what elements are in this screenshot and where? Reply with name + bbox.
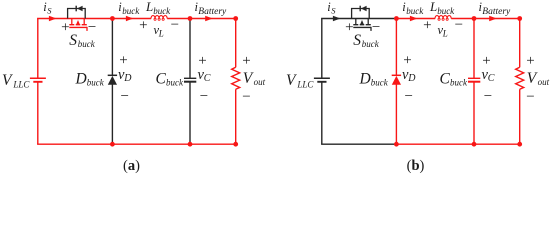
svg-text:D: D [75,70,87,87]
label C_buck (b) [440,70,468,87]
label v_C (a) [198,67,211,84]
label V_out (a) [243,70,266,87]
label i_Battery (b) [479,0,512,17]
svg-text:L: L [429,0,437,14]
label i_S (b) [327,0,336,15]
svg-text:−: − [242,89,250,105]
svg-text:+: + [345,19,353,35]
junction node: C_buck top (b) [472,16,477,21]
label v_L (a) [154,23,164,38]
svg-text:L: L [158,28,164,38]
wire: D_buck branch upper (a) [111,19,113,76]
svg-text:−: − [526,89,534,105]
wire: top rail from D_buck node to L_buck (b) [396,18,435,20]
svg-text:D: D [359,70,371,87]
svg-text:C: C [488,73,495,84]
svg-text:buck: buck [122,6,140,16]
junction node: C_buck top (a) [188,16,193,21]
voltage source V_LLC (a) [30,78,46,82]
wire: V_out branch upper (a) [235,19,237,68]
svg-text:D: D [407,73,416,84]
wire: V_out branch lower (a) [235,89,237,144]
label V_out (b) [527,70,550,87]
svg-text:S: S [353,32,361,49]
wire: top rail from V_LLC to S_buck/D_buck node (b) [321,18,396,20]
svg-text:−: − [404,89,412,105]
wire: top rail from L_buck to C_buck node (b) [451,18,474,20]
label v_L (b) [438,23,448,38]
junction node: D_buck top (b) [394,16,399,21]
svg-text:buck: buck [166,77,184,87]
wire: C_buck branch upper (a) [189,19,191,79]
label v_D (b) [402,67,416,84]
svg-text:S: S [331,5,336,15]
svg-text:buck: buck [153,6,171,16]
label D_buck (a) [75,70,105,87]
current arrow i_buck (a) [126,16,134,21]
wire: bottom return rail (a) [37,143,236,145]
junction node: V_out top corner (a) [233,16,238,21]
resistor load V_out (b) [516,67,524,89]
svg-text:Battery: Battery [198,7,227,17]
wire: top rail from C_buck node to V_out (b) [474,18,520,20]
svg-text:V: V [243,70,254,87]
svg-text:V: V [286,72,297,89]
switch S_buck (MOSFET) (b) [353,19,371,31]
svg-text:buck: buck [437,6,455,16]
svg-text:−: − [171,17,179,33]
svg-text:+: + [423,18,431,34]
label D_buck (b) [359,70,389,87]
capacitor C_buck (b) [468,78,480,81]
label V_LLC (a) [2,72,30,90]
wire: C_buck branch upper (b) [473,19,475,79]
body diode of S_buck (b) [352,6,370,19]
body diode of S_buck (a) [68,6,86,19]
label v_D (a) [118,67,132,84]
label L_buck (b) [429,0,455,16]
wire: bottom rail right segment (b) [396,143,520,145]
svg-text:(b): (b) [407,158,425,174]
inductor L_buck (b) [435,16,451,21]
svg-text:−: − [484,89,492,105]
wire: left rail upper (a) [37,19,39,79]
svg-text:L: L [442,28,448,38]
svg-text:LLC: LLC [12,79,30,89]
resistor load V_out (a) [232,67,240,89]
junction node: D_buck bottom (b) [394,142,399,147]
wire: C_buck branch lower (a) [189,82,191,145]
wire: left rail upper (b) [321,19,323,79]
wire: D_buck branch upper (b) [395,19,397,76]
voltage source V_LLC (b) [314,78,330,82]
inductor L_buck (a) [151,16,167,21]
junction node: V_out top corner (b) [517,16,522,21]
svg-text:C: C [156,70,167,87]
label i_S (a) [43,0,52,15]
svg-text:D: D [123,73,132,84]
label L_buck (a) [145,0,171,16]
svg-text:L: L [145,0,153,14]
label V_LLC (b) [286,72,314,90]
svg-text:C: C [440,70,451,87]
label S_buck (b) [353,32,379,49]
svg-text:S: S [47,5,52,15]
svg-text:LLC: LLC [296,79,314,89]
svg-text:buck: buck [450,77,468,87]
svg-text:buck: buck [78,39,96,49]
svg-text:Battery: Battery [482,7,511,17]
svg-text:+: + [61,19,69,35]
svg-text:−: − [200,89,208,105]
svg-text:out: out [538,77,550,87]
label C_buck (a) [156,70,184,87]
wire: D_buck branch lower (b) [395,84,397,144]
current arrow i_Battery (a) [205,16,213,21]
current arrow i_S (a) [49,16,57,21]
diode D_buck (a) [108,75,117,85]
wire: top rail from L_buck to C_buck node (a) [167,18,190,20]
junction node: D_buck bottom (a) [110,142,115,147]
svg-text:+: + [139,18,147,34]
junction node: V_out bottom corner (b) [517,142,522,147]
wire: top rail from C_buck node to V_out (a) [190,18,236,20]
switch S_buck (MOSFET) (a) [69,19,87,31]
capacitor C_buck (a) [184,78,196,81]
svg-text:+: + [242,53,250,69]
wire: left rail lower (a) [37,82,39,144]
svg-text:V: V [527,70,538,87]
svg-text:−: − [120,89,128,105]
wire: D_buck branch lower (a) [111,84,113,144]
svg-text:buck: buck [371,77,389,87]
svg-text:−: − [88,19,96,35]
current arrow i_buck (b) [410,16,418,21]
wire: left rail lower (b) [321,82,323,144]
current arrow i_S (b) [333,16,341,21]
svg-text:+: + [526,53,534,69]
svg-text:C: C [204,73,211,84]
svg-text:buck: buck [406,6,424,16]
label i_Battery (a) [195,0,228,17]
svg-text:buck: buck [87,77,105,87]
wire: top rail from D_buck node to L_buck (a) [112,18,151,20]
current arrow i_Battery (b) [489,16,497,21]
label i_buck (a) [118,0,140,16]
svg-text:out: out [254,77,266,87]
diode D_buck (b) [392,75,401,85]
wire: C_buck branch lower (b) [473,82,475,145]
label v_C (b) [482,67,495,84]
label i_buck (b) [402,0,424,16]
svg-text:V: V [2,72,13,89]
svg-text:−: − [455,17,463,33]
junction node: C_buck bottom (b) [472,142,477,147]
wire: V_out branch lower (b) [519,89,521,144]
junction node: C_buck bottom (a) [188,142,193,147]
svg-text:(a): (a) [123,158,140,174]
svg-text:−: − [372,19,380,35]
label S_buck (a) [69,32,95,49]
junction node: D_buck top (a) [110,16,115,21]
svg-text:buck: buck [362,39,380,49]
wire: top rail from V_LLC to S_buck/D_buck node (a) [37,18,112,20]
wire: V_out branch upper (b) [519,19,521,68]
wire: bottom rail left segment (b) [321,143,396,145]
junction node: V_out bottom corner (a) [233,142,238,147]
svg-text:S: S [69,32,77,49]
